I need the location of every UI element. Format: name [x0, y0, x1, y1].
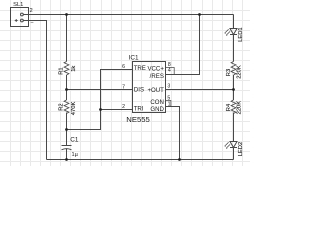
svg-text:GND: GND: [150, 106, 164, 113]
svg-text:NE555: NE555: [126, 115, 150, 124]
svg-text:/RES: /RES: [150, 73, 164, 80]
svg-text:7: 7: [122, 84, 125, 90]
svg-text:6: 6: [122, 64, 125, 70]
svg-text:SL1: SL1: [13, 2, 23, 8]
svg-text:R3: R3: [226, 69, 232, 76]
svg-text:LED2: LED2: [238, 142, 244, 157]
svg-text:+OUT: +OUT: [147, 87, 164, 94]
svg-text:R4: R4: [226, 103, 232, 111]
svg-text:4: 4: [168, 67, 171, 73]
svg-text:470K: 470K: [71, 102, 77, 116]
svg-text:2: 2: [122, 104, 125, 110]
svg-text:IC1: IC1: [129, 55, 139, 62]
svg-text:R2: R2: [58, 103, 64, 110]
svg-text:DIS: DIS: [134, 86, 144, 93]
svg-text:TRI: TRI: [134, 106, 144, 113]
svg-text:R1: R1: [58, 67, 64, 74]
svg-text:3: 3: [167, 83, 170, 89]
svg-text:1: 1: [168, 101, 171, 107]
svg-text:2: 2: [30, 8, 33, 14]
svg-text:TRE: TRE: [134, 65, 146, 72]
svg-text:220K: 220K: [237, 101, 243, 115]
svg-text:1k: 1k: [71, 66, 77, 72]
svg-text:VCC+: VCC+: [147, 65, 164, 72]
svg-text:C1: C1: [70, 136, 79, 143]
svg-text:1µ: 1µ: [72, 152, 79, 158]
svg-text:220K: 220K: [237, 65, 243, 79]
svg-text:LED1: LED1: [238, 27, 244, 42]
